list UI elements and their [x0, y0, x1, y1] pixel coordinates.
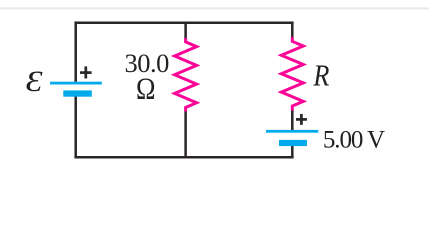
battery 5.00 V: bottom plate (short, -) — [279, 140, 307, 146]
battery 5.00 V: top plate (long, +) — [266, 130, 318, 133]
battery EMF: top plate (long, +) — [50, 82, 102, 85]
battery EMF: bottom plate (short, -) — [63, 90, 92, 96]
svg-text:5.00 V: 5.00 V — [323, 126, 385, 153]
label R (right resistor name) — [312, 60, 329, 93]
wire: left branch lower segment (battery E bottom plate to bottom wire) — [74, 96, 77, 158]
wire: left branch upper segment (top wire to battery E top plate) — [74, 21, 77, 81]
wire: right branch middle segment (resistor R to 5V battery top plate) — [291, 110, 294, 130]
label EMF script-E — [26, 65, 43, 97]
wire: right branch bottom segment (5V battery bottom plate to bottom wire) — [291, 146, 294, 159]
wire: middle branch top stub (top wire to 30 ohm resistor) — [184, 21, 187, 38]
wire: bottom horizontal (node between E-, 30 ohm bottom, battery -) — [74, 156, 293, 159]
resistor 30.0 ohm (middle branch zigzag) — [175, 38, 197, 112]
resistor R (right branch zigzag) — [281, 37, 303, 110]
wire: top horizontal (node between E+, 30 ohm top, R top) — [74, 21, 293, 24]
battery 5.00 V: plus sign — [296, 114, 307, 125]
svg-text:Ɛ: Ɛ — [26, 65, 43, 97]
card top border line — [0, 7, 429, 9]
svg-text:R: R — [312, 60, 329, 93]
wire: middle branch bottom stub (30 ohm resistor to bottom wire) — [184, 111, 187, 158]
wire: right branch top stub (top wire to resistor R) — [291, 21, 294, 37]
battery EMF: plus sign — [80, 66, 92, 78]
svg-text:Ω: Ω — [136, 71, 156, 105]
